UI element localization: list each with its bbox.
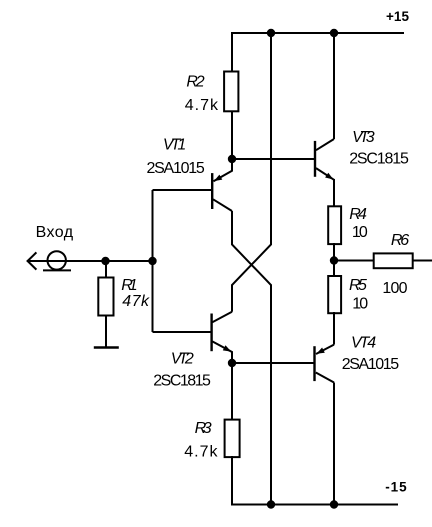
junction on bottom rail (VT4 collector) xyxy=(330,500,338,508)
wire top rail corner to R2 xyxy=(231,32,233,71)
svg-text:4.7k: 4.7k xyxy=(185,97,219,114)
wire node to R1 xyxy=(105,261,107,277)
junction on bottom rail (crossover branch) xyxy=(267,500,275,508)
svg-text:2SA1015: 2SA1015 xyxy=(147,160,205,177)
wire VT3 collector to +15 rail xyxy=(333,33,335,139)
-15 power label xyxy=(385,479,407,494)
wire +15 top rail xyxy=(231,32,404,34)
svg-text:+15: +15 xyxy=(386,9,409,24)
R1 value label 47k xyxy=(122,293,150,310)
R3 designator label xyxy=(195,420,212,437)
svg-text:-15: -15 xyxy=(385,479,407,494)
svg-text:R1: R1 xyxy=(121,277,138,294)
VT3 type label 2SC1815 xyxy=(349,150,409,167)
R4 value label 10 xyxy=(352,224,368,241)
VT3 designator label xyxy=(352,129,375,146)
VT4 designator label xyxy=(351,334,376,351)
input connector socket xyxy=(43,251,71,270)
wire R3 to -15 rail xyxy=(231,456,233,505)
VT2 designator label xyxy=(171,350,194,367)
R6 designator label xyxy=(391,232,409,249)
svg-text:R6: R6 xyxy=(391,232,409,249)
wire node D to R6 xyxy=(334,260,373,262)
svg-text:R5: R5 xyxy=(349,277,367,294)
junction on top rail (VT3 collector) xyxy=(330,29,338,37)
junction node D (R4 / R5 / R6 output) xyxy=(330,256,338,264)
transistor VT3 xyxy=(315,139,334,180)
svg-text:2SC1815: 2SC1815 xyxy=(349,150,409,167)
resistor R5 xyxy=(328,276,341,313)
svg-text:100: 100 xyxy=(382,280,407,297)
junction on top rail (crossover branch) xyxy=(267,29,275,37)
transistor VT4 xyxy=(315,345,335,383)
wire VT2 collector to +15 rail (crossover) xyxy=(232,33,271,312)
wire R4 to node D xyxy=(333,243,335,260)
wire node D to R5 xyxy=(333,261,335,277)
junction node C (VT2 emitter / R3 / VT4 base) xyxy=(228,359,236,367)
resistor R4 xyxy=(328,206,341,244)
svg-text:R2: R2 xyxy=(186,74,204,91)
wire node C to VT4 base xyxy=(232,362,315,364)
svg-text:VT2: VT2 xyxy=(171,350,194,367)
wire R1 node to node B xyxy=(106,260,153,262)
junction node B (input / VT1 base / VT2 base) xyxy=(148,257,156,265)
wire base loop vertical (node B to bases) xyxy=(152,190,154,332)
wire -15 bottom rail xyxy=(231,504,398,506)
wire VT1 base xyxy=(153,189,214,191)
svg-text:VT3: VT3 xyxy=(352,129,375,146)
wire R6 to output edge xyxy=(412,260,432,262)
wire R5 to VT4 emitter xyxy=(333,312,335,345)
svg-text:47k: 47k xyxy=(122,293,150,310)
R1 designator label xyxy=(121,277,138,294)
ground xyxy=(94,346,119,348)
wire input to R1 node xyxy=(27,260,106,262)
wire node C to R3 xyxy=(231,363,233,419)
svg-text:R3: R3 xyxy=(195,420,212,437)
input connector arrow xyxy=(28,252,37,269)
wire R1 to ground xyxy=(105,315,107,347)
svg-text:10: 10 xyxy=(352,295,368,312)
resistor R6 xyxy=(374,253,413,268)
VT2 type label 2SC1815 xyxy=(153,373,211,390)
svg-text:VT1: VT1 xyxy=(163,137,186,154)
svg-text:4.7k: 4.7k xyxy=(184,444,218,461)
R4 designator label xyxy=(349,206,367,223)
R5 designator label xyxy=(349,277,367,294)
transistor VT2 xyxy=(212,312,232,363)
resistor R3 xyxy=(225,420,240,458)
VT4 type label 2SA1015 xyxy=(342,356,399,373)
junction node A (R2 / VT1 emitter / VT3 base) xyxy=(228,155,236,163)
wire VT1 collector to -15 rail (crossover) xyxy=(232,211,271,505)
resistor R2 xyxy=(224,72,238,112)
R5 value label 10 xyxy=(352,295,368,312)
resistor R1 xyxy=(98,278,113,316)
svg-text:2SA1015: 2SA1015 xyxy=(342,356,399,373)
+15 power label xyxy=(386,9,409,24)
svg-text:10: 10 xyxy=(352,224,368,241)
wire VT4 collector to -15 rail xyxy=(333,383,335,505)
R2 value label 4.7k xyxy=(185,97,219,114)
svg-text:Вход: Вход xyxy=(36,224,74,241)
R6 value label 100 xyxy=(382,280,407,297)
VT1 designator label xyxy=(163,137,186,154)
wire node A to VT3 base xyxy=(232,158,315,160)
R3 value label 4.7k xyxy=(184,444,218,461)
wire R2 to node A xyxy=(231,111,233,159)
Вход input label xyxy=(36,224,74,241)
junction node (input / R1) xyxy=(101,257,109,265)
svg-text:R4: R4 xyxy=(349,206,367,223)
svg-text:VT4: VT4 xyxy=(351,334,376,351)
VT1 type label 2SA1015 xyxy=(147,160,205,177)
wire VT3 emitter to R4 xyxy=(333,179,335,206)
transistor VT1 xyxy=(212,159,232,211)
svg-text:2SC1815: 2SC1815 xyxy=(153,373,211,390)
R2 designator label xyxy=(186,74,204,91)
wire VT2 base xyxy=(153,331,213,333)
